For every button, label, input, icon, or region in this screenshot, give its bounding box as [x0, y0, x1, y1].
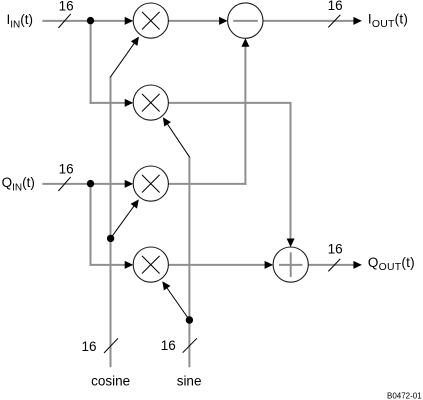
multiplier M1 (I x cosine): [133, 3, 168, 38]
wire sine diagonal to M4: [165, 285, 189, 320]
node cosine junction dot: [107, 235, 114, 242]
adder plus mark horizontal: [279, 264, 302, 266]
arrowhead into subtractor bottom: [241, 38, 249, 47]
adder plus mark vertical: [290, 252, 292, 277]
arrowhead into M4: [125, 261, 134, 269]
wire Q branch to multiplier M4: [90, 264, 127, 266]
multiplier M2 X mark: [142, 94, 160, 112]
arrowhead into M2: [125, 99, 134, 107]
subtractor U1: [228, 3, 263, 38]
wire I_IN input: [42, 20, 126, 22]
wire Q branch vertical: [90, 183, 92, 266]
bus slash I_IN 16: [58, 14, 70, 28]
arrowhead sine into M2: [163, 117, 171, 126]
arrowhead cosine into M3: [131, 199, 139, 208]
svg-text:cosine: cosine: [91, 374, 130, 389]
svg-text:B0472-01: B0472-01: [387, 391, 422, 400]
subtractor minus mark: [233, 20, 258, 22]
arrowhead cosine into M1: [131, 37, 139, 46]
bus slash cosine 16: [104, 338, 118, 353]
bus slash I_OUT 16: [328, 15, 340, 28]
svg-text:sine: sine: [177, 374, 202, 389]
svg-text:16: 16: [59, 0, 74, 13]
svg-text:16: 16: [82, 339, 97, 354]
bus slash Q_OUT 16: [328, 259, 340, 272]
multiplier M4 X mark: [142, 256, 160, 274]
wire M4 output to adder: [168, 264, 265, 266]
arrowhead sine into M4: [162, 281, 170, 290]
svg-text:16: 16: [328, 242, 343, 257]
arrowhead into adder left: [265, 261, 274, 269]
bus slash Q_IN 16: [58, 177, 70, 191]
wire sine diagonal to M2: [166, 122, 190, 157]
wire cosine diagonal to M1: [110, 41, 136, 78]
svg-text:16: 16: [161, 338, 176, 353]
wire cosine vertical: [110, 77, 112, 368]
wire cosine diagonal to M3: [111, 204, 136, 239]
wire M3 output horizontal: [168, 183, 246, 185]
svg-text:16: 16: [328, 0, 343, 13]
bus slash sine 16: [183, 338, 197, 352]
node I junction dot: [87, 17, 94, 24]
arrowhead Q_OUT: [353, 261, 362, 269]
node sine junction dot: [186, 316, 193, 323]
wire Q_IN input: [42, 183, 126, 185]
wire M3 output vertical to subtractor bottom: [244, 46, 246, 185]
multiplier M3 X mark: [142, 175, 160, 193]
wire M2 output horizontal: [168, 102, 291, 104]
multiplier M2 (I x sine): [133, 85, 168, 120]
node Q junction dot: [87, 180, 94, 187]
arrowhead into adder top: [287, 239, 295, 248]
arrowhead into subtractor left: [219, 17, 228, 25]
wire adder output to Q_OUT: [308, 264, 353, 266]
arrowhead I_OUT: [353, 17, 362, 25]
wire subtractor output to I_OUT: [263, 20, 354, 22]
wire I branch to multiplier M2: [90, 102, 126, 104]
multiplier M4 (Q x sine): [133, 247, 168, 282]
adder U2: [273, 247, 308, 282]
wire sine vertical: [188, 157, 190, 368]
wire M1 output to subtractor: [168, 20, 220, 22]
wire I branch vertical: [90, 20, 92, 104]
multiplier M1 X mark: [142, 12, 160, 30]
multiplier M3 (Q x cosine): [133, 166, 168, 201]
arrowhead into M3: [125, 180, 134, 188]
arrowhead into M1: [125, 17, 134, 25]
wire M2 output vertical to adder top: [290, 103, 292, 240]
svg-text:16: 16: [59, 162, 74, 177]
